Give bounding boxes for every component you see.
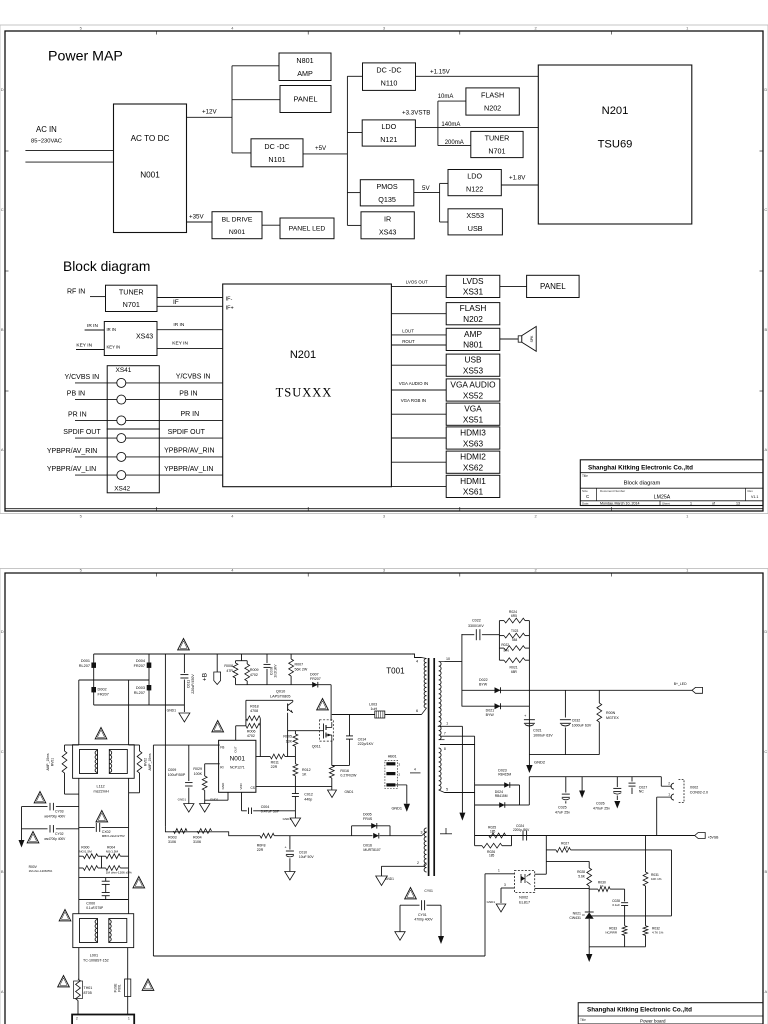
diode D002 FR207	[91, 687, 96, 692]
svg-text:68R: 68R	[511, 670, 518, 674]
wire diode branch bottom	[462, 705, 530, 707]
wire N201 to N202	[391, 313, 446, 315]
svg-text:GND1: GND1	[385, 877, 394, 881]
svg-text:R028: R028	[577, 870, 585, 874]
wire to N110	[347, 75, 362, 77]
svg-text:RF IN: RF IN	[67, 289, 85, 296]
wire mid node	[589, 915, 671, 917]
svg-text:BYW: BYW	[486, 713, 495, 717]
resistor R031 10K 1%	[645, 836, 647, 873]
block AC TO DC N001	[114, 104, 187, 233]
resistor R009 4702	[245, 664, 250, 681]
wire source to sense	[331, 742, 333, 765]
svg-text:TH01: TH01	[84, 986, 93, 990]
svg-text:CW431: CW431	[569, 916, 581, 920]
wire to PANEL LED	[262, 224, 280, 226]
svg-text:PANEL LED: PANEL LED	[289, 226, 326, 233]
wire to TUNER	[438, 145, 471, 147]
resistor R030 1K	[598, 887, 610, 892]
optocoupler N002 EL817	[514, 871, 534, 893]
ground arrow beside C025	[581, 777, 583, 791]
wire cy01 left down	[399, 905, 401, 932]
svg-text:2: 2	[668, 782, 670, 786]
svg-text:Block diagram: Block diagram	[624, 481, 661, 487]
svg-text:AC TO DC: AC TO DC	[131, 134, 170, 143]
svg-text:C021: C021	[533, 729, 542, 733]
svg-text:Monday, March 10, 2014: Monday, March 10, 2014	[600, 502, 640, 506]
svg-text:D: D	[764, 87, 767, 92]
svg-text:D021: D021	[486, 709, 495, 713]
svg-text:YPBPR/AV_RIN: YPBPR/AV_RIN	[47, 448, 97, 455]
svg-text:Title: Title	[582, 474, 588, 478]
wire primary return long vertical	[152, 745, 154, 956]
ic N001 box	[219, 740, 256, 792]
svg-text:D: D	[764, 629, 767, 634]
bridge rectifier left leg wire	[93, 654, 95, 705]
svg-text:Power board: Power board	[640, 1019, 666, 1024]
capacitor CY01 bridge	[400, 904, 420, 906]
svg-text:F001: F001	[118, 984, 122, 992]
svg-text:GND1: GND1	[283, 817, 292, 821]
svg-text:N121: N121	[380, 135, 397, 144]
wire row link	[101, 856, 103, 868]
capacitor C026 470uF	[616, 777, 618, 787]
diode D001 RL207	[91, 663, 96, 668]
svg-text:C: C	[1, 207, 4, 212]
svg-text:C009: C009	[168, 768, 177, 772]
ground open GND1 aux	[376, 876, 388, 886]
wire LOUT	[391, 334, 446, 336]
warning triangle sec	[405, 888, 417, 899]
resistor R000 1.5M	[79, 855, 83, 857]
svg-text:2200p /50V: 2200p /50V	[513, 828, 530, 832]
svg-text:RL207: RL207	[134, 691, 145, 695]
svg-text:B: B	[1, 327, 4, 332]
svg-text:13K: 13K	[286, 739, 293, 743]
svg-text:+5V: +5V	[315, 145, 327, 152]
ground arrow sec	[438, 936, 444, 944]
svg-text:10mA: 10mA	[438, 94, 454, 100]
wire 5VSB rail	[475, 835, 695, 837]
svg-text:1000uF 63V: 1000uF 63V	[533, 733, 553, 737]
svg-text:1M ohm-1206 ±5%: 1M ohm-1206 ±5%	[106, 870, 132, 874]
transformer secondary winding lower	[439, 748, 441, 790]
svg-text:XS61: XS61	[463, 487, 484, 497]
svg-text:C004: C004	[261, 805, 270, 809]
svg-text:185: 185	[489, 854, 495, 858]
page 1 title block	[580, 460, 763, 506]
wire R028 top branch	[546, 860, 589, 862]
svg-text:PMOS: PMOS	[376, 182, 397, 191]
svg-text:Q135: Q135	[378, 195, 396, 204]
svg-text:A: A	[764, 447, 767, 452]
svg-text:D004: D004	[136, 659, 145, 663]
svg-text:R007: R007	[295, 663, 304, 667]
capacitor C022 snubber	[462, 634, 474, 636]
line filter L001	[73, 914, 134, 948]
block N801 AMP	[279, 53, 331, 81]
svg-text:R004: R004	[193, 836, 202, 840]
ground below R029	[200, 804, 210, 813]
svg-text:KEY IN: KEY IN	[172, 341, 188, 347]
svg-text:OUT: OUT	[234, 746, 238, 753]
wire opto left top	[485, 873, 514, 875]
block FLASH N202	[466, 88, 519, 115]
svg-text:FLASH: FLASH	[460, 303, 487, 313]
wire output node vertical	[528, 621, 530, 765]
wire opto left bottom	[501, 887, 514, 889]
resistor R00V 1M	[79, 867, 83, 869]
svg-text:AMP_10ms: AMP_10ms	[46, 753, 50, 770]
svg-text:FR207: FR207	[134, 664, 145, 668]
resistor R005 13K	[294, 731, 296, 734]
svg-text:LAPST0805: LAPST0805	[270, 694, 290, 698]
svg-text:PR IN: PR IN	[68, 412, 87, 419]
svg-text:GND: GND	[221, 782, 225, 790]
svg-text:KEY IN: KEY IN	[76, 343, 92, 349]
wire snubber bottom	[236, 684, 332, 686]
wire N121 out	[415, 126, 538, 128]
wire RF IN	[90, 296, 106, 298]
svg-text:N001: N001	[140, 171, 160, 180]
svg-text:CY01: CY01	[418, 913, 427, 917]
svg-text:XS42: XS42	[114, 486, 130, 493]
block HDMI2 XS62	[446, 451, 500, 473]
svg-text:IR IN: IR IN	[173, 322, 184, 328]
svg-text:C025: C025	[558, 806, 567, 810]
svg-text:100K: 100K	[194, 772, 203, 776]
svg-text:FLASH: FLASH	[481, 91, 504, 100]
wire to F001	[127, 948, 129, 979]
svg-text:TC-1008ST-152: TC-1008ST-152	[83, 958, 109, 962]
AC input terminal block	[72, 1015, 134, 1024]
connector flag B+	[692, 687, 703, 693]
wire to N801	[232, 65, 279, 67]
svg-text:Y/CVBS IN: Y/CVBS IN	[176, 374, 211, 381]
svg-text:140mA: 140mA	[441, 122, 460, 128]
block XS53 USB	[448, 209, 502, 235]
ground below R016	[328, 790, 337, 798]
svg-text:ws4700p 400V: ws4700p 400V	[44, 815, 66, 819]
svg-text:N001: N001	[230, 756, 246, 763]
svg-text:NC/RRR: NC/RRR	[605, 931, 617, 935]
wire aux pin2 left	[382, 865, 425, 867]
wire PB IN right	[126, 399, 223, 401]
svg-text:R008: R008	[224, 664, 233, 668]
svg-text:AMP: AMP	[464, 329, 482, 339]
svg-text:13: 13	[736, 502, 740, 506]
bridge rectifier right leg wire	[148, 654, 150, 705]
svg-text:1: 1	[686, 514, 689, 519]
resistor R025 185	[489, 833, 506, 838]
svg-text:YPBPR/AV_LIN: YPBPR/AV_LIN	[164, 466, 213, 473]
resistor R021 68R	[504, 658, 525, 663]
wire to N122	[440, 182, 448, 184]
svg-text:4: 4	[414, 768, 416, 772]
svg-text:4: 4	[416, 660, 418, 664]
svg-text:Y/CVBS IN: Y/CVBS IN	[65, 374, 100, 381]
svg-text:Q011: Q011	[312, 745, 321, 749]
svg-text:RB415M: RB415M	[498, 773, 511, 777]
svg-text:TUNER: TUNER	[485, 134, 510, 143]
svg-text:220uF/450V: 220uF/450V	[191, 674, 195, 694]
svg-text:CY02: CY02	[55, 832, 64, 836]
svg-text:NC: NC	[639, 790, 645, 794]
svg-text:8T05: 8T05	[84, 991, 92, 995]
tl431 N021 CW431	[585, 911, 594, 913]
svg-text:Document Number: Document Number	[600, 489, 625, 493]
wire AC right rail to choke	[128, 680, 130, 745]
svg-text:C014: C014	[358, 737, 367, 741]
svg-text:R029: R029	[193, 767, 202, 771]
svg-text:+1.15V: +1.15V	[430, 69, 451, 76]
svg-text:D: D	[1, 629, 4, 634]
svg-text:GND1: GND1	[210, 798, 219, 802]
svg-text:0.1uF: 0.1uF	[612, 903, 620, 907]
pin NC stub T	[445, 828, 447, 834]
wire +5V bus	[346, 76, 348, 225]
warning triangle above C011	[178, 639, 190, 650]
block FLASH N202	[446, 303, 500, 325]
svg-text:N701: N701	[488, 147, 505, 156]
svg-text:470uF 25v: 470uF 25v	[593, 806, 610, 810]
connector pin circle YPBPR/AV_LIN	[117, 471, 126, 480]
svg-text:X002: X002	[690, 786, 698, 790]
svg-text:HDMI3: HDMI3	[460, 428, 486, 438]
svg-text:HDMI2: HDMI2	[460, 452, 486, 462]
svg-text:GND1: GND1	[178, 798, 187, 802]
svg-text:CY01: CY01	[424, 889, 433, 893]
warning triangle primary 2	[317, 699, 329, 710]
svg-text:EL817: EL817	[519, 900, 530, 904]
block PANEL	[280, 86, 331, 113]
diode D003 RL207	[147, 685, 152, 690]
block AMP N801	[446, 328, 500, 350]
wire secondary rect rail	[461, 634, 463, 707]
svg-text:LDO: LDO	[467, 172, 482, 181]
svg-text:R0F8: R0F8	[257, 843, 266, 847]
svg-text:XS63: XS63	[463, 438, 484, 448]
svg-text:MGTEX: MGTEX	[606, 716, 619, 720]
resistor R002 1M	[106, 866, 121, 871]
resistor RV01 damper left	[64, 745, 66, 751]
svg-text:B: B	[764, 327, 767, 332]
wire PMOS out	[414, 192, 440, 194]
svg-text:47uF 25v: 47uF 25v	[555, 810, 570, 814]
svg-text:HDMI1: HDMI1	[460, 476, 486, 486]
wire SPDIF OUT left	[75, 437, 117, 439]
svg-text:1uH: 1uH	[371, 707, 378, 711]
svg-text:8: 8	[444, 747, 446, 751]
svg-text:VGA AUDIO IN: VGA AUDIO IN	[399, 381, 429, 386]
svg-text:10uF 50V: 10uF 50V	[299, 855, 314, 859]
svg-text:N202: N202	[484, 104, 501, 113]
svg-text:4702: 4702	[247, 734, 255, 738]
svg-text:22R: 22R	[271, 765, 278, 769]
svg-text:C: C	[1, 749, 4, 754]
transformer primary winding	[424, 659, 426, 709]
svg-text:2n2/1KV: 2n2/1KV	[274, 664, 278, 678]
svg-text:FR4S: FR4S	[363, 817, 373, 821]
page 1 zone tick marks	[156, 31, 158, 35]
wire +35V	[187, 221, 213, 223]
svg-text:USB: USB	[464, 355, 482, 365]
page 2 border frame	[5, 573, 763, 1024]
wire LVDS to PANEL	[500, 285, 527, 287]
wire GND pin down	[227, 792, 229, 800]
ground CY arrow	[19, 840, 25, 848]
svg-text:SPDIF OUT: SPDIF OUT	[63, 429, 101, 436]
svg-text:AMP_10ms: AMP_10ms	[148, 753, 152, 770]
svg-text:NG/1.5M: NG/1.5M	[106, 849, 119, 853]
warning triangle above choke	[95, 728, 107, 739]
warning triangle CY2	[27, 832, 39, 843]
ground open sec	[395, 932, 405, 941]
svg-text:NG/1.5M: NG/1.5M	[79, 849, 92, 853]
svg-text:XS43: XS43	[136, 334, 153, 341]
svg-text:2: 2	[417, 861, 419, 865]
capacitor C010	[289, 836, 291, 850]
svg-text:IF+: IF+	[226, 306, 234, 312]
svg-text:CON02-2.0: CON02-2.0	[690, 790, 708, 794]
svg-text:1K: 1K	[302, 773, 307, 777]
mosfet Q011 dashed box	[320, 720, 334, 741]
block DC-DC N101	[251, 139, 303, 167]
svg-text:3: 3	[383, 514, 386, 519]
wire left rail below choke	[78, 779, 80, 914]
capacitor CY02	[56, 828, 79, 830]
wire feedback vertical to opto	[484, 874, 486, 956]
diode D022	[495, 687, 501, 693]
svg-text:Date:: Date:	[582, 502, 589, 506]
wire right rail below choke	[128, 779, 130, 914]
wire 3.3V bus	[437, 101, 439, 146]
wire AC left rail to choke	[78, 680, 80, 745]
warning triangle CY1	[34, 792, 46, 803]
transformer secondary winding upper	[439, 662, 441, 740]
svg-text:2: 2	[534, 514, 537, 519]
svg-text:FR207: FR207	[98, 692, 109, 696]
warning triangle CX00	[133, 877, 145, 888]
diode D016 on line	[373, 833, 379, 839]
svg-text:R00N: R00N	[606, 711, 616, 715]
wire AC line 2	[25, 161, 113, 163]
wire to TH01	[78, 948, 80, 979]
wire gate	[288, 730, 324, 732]
connector pin circle PB IN	[117, 395, 126, 404]
wire diode branch top	[462, 689, 530, 691]
page 2 sheet	[0, 569, 768, 1024]
resistor R0F8 22R	[260, 833, 274, 838]
block XS43 bd	[104, 322, 157, 356]
connector XS42 box	[107, 429, 159, 493]
wire R027 feed vertical	[671, 850, 673, 916]
wire Q010 collector	[292, 700, 294, 702]
svg-text:CS: CS	[251, 786, 255, 790]
svg-text:Title: Title	[580, 1018, 586, 1022]
svg-text:3: 3	[421, 831, 423, 835]
svg-text:47R: 47R	[226, 669, 233, 673]
wire output bottom	[529, 754, 599, 756]
svg-text:XS41: XS41	[116, 367, 132, 374]
block N201 TSUXXX	[223, 284, 392, 487]
wire cy01 right down	[440, 905, 442, 936]
svg-text:D007: D007	[310, 673, 319, 677]
svg-text:1: 1	[690, 502, 692, 506]
wire R030 to C028	[624, 889, 626, 901]
svg-text:22R: 22R	[257, 848, 264, 852]
svg-text:1M ohm-1206±5%: 1M ohm-1206±5%	[29, 869, 53, 873]
svg-text:V1.1: V1.1	[751, 495, 758, 499]
capacitor C025 47uF	[565, 777, 567, 793]
svg-text:4.7K 1%: 4.7K 1%	[652, 931, 664, 935]
svg-text:PB IN: PB IN	[67, 391, 85, 398]
resistor R004b 330K	[197, 829, 211, 834]
block TUNER N701	[471, 131, 523, 157]
pin 4 NC stub	[410, 772, 421, 774]
svg-text:XS53: XS53	[463, 366, 484, 376]
wire Y/CVBS IN left	[75, 382, 117, 384]
block VGA AUDIO XS52	[446, 379, 500, 401]
resistor R016 0.27R/2W	[329, 765, 334, 778]
bridge rectifier bottom wire	[94, 704, 185, 706]
svg-text:B: B	[764, 869, 767, 874]
svg-text:N021: N021	[573, 911, 581, 915]
svg-text:5.6K: 5.6K	[578, 875, 586, 879]
block DC-DC N110	[363, 63, 416, 91]
capacitor C009	[153, 744, 219, 746]
wire R008 R009 feed stub	[241, 654, 243, 661]
wire HB01 pin1 to GND1	[395, 784, 406, 786]
svg-text:5V: 5V	[422, 185, 430, 192]
wire PR IN left	[75, 419, 117, 421]
wire +12V bus	[231, 66, 233, 153]
svg-text:56K 2W: 56K 2W	[295, 667, 308, 671]
svg-text:GND1: GND1	[167, 709, 177, 713]
svg-text:T001: T001	[386, 667, 405, 676]
wire to XS53	[440, 221, 448, 223]
svg-text:+35V: +35V	[189, 214, 204, 221]
svg-text:GND2: GND2	[534, 760, 546, 765]
svg-text:Block diagram: Block diagram	[63, 259, 150, 274]
wire IR IN left	[85, 329, 105, 331]
svg-text:USB: USB	[468, 224, 483, 233]
wire tl431 anode down	[588, 919, 590, 947]
svg-text:1000uF 63V: 1000uF 63V	[572, 723, 592, 727]
svg-text:T023: T023	[511, 629, 518, 633]
block PANEL LED	[280, 218, 334, 239]
svg-text:N901: N901	[229, 229, 245, 236]
svg-text:MB/X-22uF/275V: MB/X-22uF/275V	[102, 834, 125, 838]
wire pin7 tap	[440, 735, 475, 737]
wire R018 right drop	[259, 718, 261, 756]
warning triangle TH01	[58, 976, 70, 987]
svg-text:N110: N110	[381, 79, 398, 88]
svg-text:185: 185	[490, 829, 496, 833]
block IR XS43	[361, 212, 414, 239]
wire PB IN left	[75, 399, 117, 401]
wire to N101	[232, 152, 251, 154]
svg-text:R018: R018	[250, 704, 259, 708]
resistor R018 4708	[246, 716, 260, 721]
wire Q010 emitter drop	[287, 713, 289, 757]
svg-text:N202: N202	[463, 314, 483, 324]
wire opto right top	[535, 873, 547, 875]
svg-text:4708: 4708	[250, 709, 258, 713]
svg-text:0.1uF/275P: 0.1uF/275P	[86, 906, 104, 910]
wire CY ground	[21, 807, 23, 840]
svg-text:VDD: VDD	[239, 783, 243, 790]
